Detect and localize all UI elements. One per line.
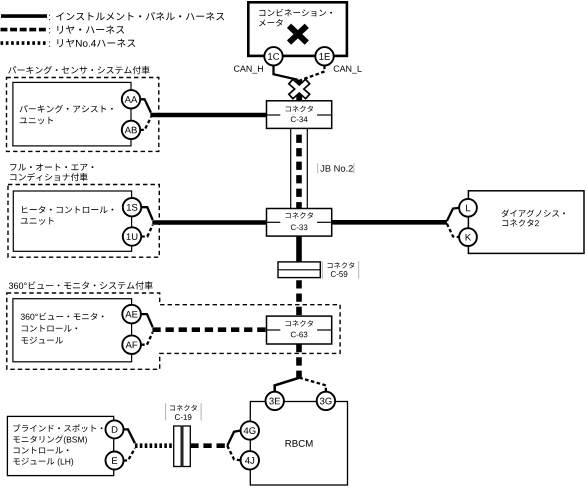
twisted-pair crossing symbol bbox=[290, 81, 308, 97]
pin 1U bbox=[123, 227, 141, 245]
wire parking merge to C-34 bbox=[150, 113, 266, 118]
pin 1E bbox=[315, 47, 333, 65]
pin AE bbox=[122, 305, 141, 324]
wire AF to merge (dashed) bbox=[141, 332, 153, 345]
heater control unit label line1 bbox=[22, 206, 113, 214]
connector C-63 box bbox=[267, 316, 332, 344]
C-59 left bracket bbox=[321, 261, 323, 279]
360 view monitor control module box bbox=[13, 299, 132, 362]
pin D bbox=[106, 420, 124, 438]
connector C-19 label bbox=[170, 405, 197, 411]
wire junction to C-34 (trunk) bbox=[296, 80, 302, 101]
wire C-19 to RBCM split (rear harness) bbox=[190, 443, 227, 448]
360 module label line2 bbox=[22, 325, 77, 332]
combination meter label line2 bbox=[259, 19, 283, 26]
wire split to 3E bbox=[275, 378, 300, 392]
connector C-33 label bbox=[286, 212, 313, 218]
wire C-63 down (rear harness) bbox=[296, 344, 302, 378]
C-19 left bracket bbox=[165, 403, 167, 420]
region label: 360 view monitor system bbox=[9, 281, 153, 289]
noise suppressor X in meter bbox=[289, 26, 307, 43]
wire 1S to merge bbox=[141, 207, 153, 220]
BSM label line4 bbox=[13, 458, 73, 467]
wire BSM merge to C-19 (rear No.4 harness) bbox=[135, 443, 174, 448]
pin 4G bbox=[241, 421, 259, 439]
net label CAN_H bbox=[234, 65, 263, 73]
wire to pin L bbox=[447, 208, 459, 221]
legend label: instrument panel harness bbox=[48, 15, 51, 20]
connector C-59 label bbox=[328, 262, 355, 268]
region label: full auto air conditioner line1 bbox=[10, 164, 93, 171]
legend line: rear harness bbox=[1, 28, 47, 32]
pin E bbox=[106, 452, 124, 470]
parking assist unit label line2 bbox=[20, 117, 53, 125]
pin L bbox=[459, 199, 477, 217]
wire E to merge (dashed) bbox=[124, 448, 135, 460]
pin K bbox=[459, 228, 477, 246]
legend label: rear harness bbox=[48, 28, 51, 33]
connector C-19 name bbox=[175, 414, 192, 420]
connector C-33 name bbox=[291, 224, 308, 230]
wire C-34 to C-33 (rear harness trunk) bbox=[296, 135, 302, 209]
combination meter box bbox=[248, 2, 347, 56]
pin AA bbox=[122, 90, 140, 108]
wire AE to merge bbox=[141, 314, 153, 327]
connector C-33 box bbox=[267, 209, 332, 237]
C-19 right bracket bbox=[200, 403, 202, 420]
360 module label line1 bbox=[21, 313, 104, 320]
RBCM box bbox=[250, 402, 347, 486]
BSM control module box bbox=[7, 416, 113, 475]
wire D to merge bbox=[124, 429, 135, 443]
legend line: rear No.4 harness bbox=[1, 41, 47, 45]
360 module label line3 bbox=[21, 337, 63, 344]
wire split to 3G (dashed) bbox=[299, 378, 326, 392]
connector C-34 name bbox=[291, 116, 308, 122]
connector C-34 box bbox=[267, 101, 332, 129]
wire 1C to junction (CAN_H) bbox=[274, 66, 298, 80]
wire heater merge to C-33 bbox=[152, 220, 266, 225]
wire split to 4G bbox=[227, 431, 240, 446]
BSM label line2 bbox=[13, 435, 87, 444]
connector C-59 name bbox=[331, 271, 348, 277]
pin AF bbox=[122, 335, 141, 354]
region label: parking sensor system bbox=[8, 66, 149, 74]
diagnosis connector 2 label line2 bbox=[502, 219, 539, 226]
junction block JB No.2 left rail bbox=[290, 128, 292, 208]
diagnosis connector 2 label line1 bbox=[502, 209, 565, 217]
JB No.2 right bracket bbox=[353, 163, 355, 173]
BSM label line3 bbox=[14, 447, 69, 454]
wire split to 4J (dashed) bbox=[227, 446, 240, 461]
legend line: instrument panel harness bbox=[1, 14, 47, 18]
combination meter label line1 bbox=[259, 9, 332, 17]
connector C-59 symbol bbox=[278, 262, 320, 278]
BSM label line1 bbox=[13, 424, 102, 432]
wire C-59 to C-63 (rear harness) bbox=[296, 280, 302, 316]
connector C-63 name bbox=[291, 332, 308, 338]
wire to pin K (dashed) bbox=[447, 224, 459, 238]
wire AB to merge (dashed) bbox=[140, 117, 151, 129]
wire AA to merge bbox=[140, 99, 151, 112]
legend text: instrument panel harness bbox=[56, 12, 224, 21]
C-59 right bracket bbox=[358, 261, 360, 279]
region label: full auto air conditioner line2 bbox=[10, 173, 87, 181]
region box: full auto air conditioner bbox=[8, 185, 159, 258]
heater control unit label line2 bbox=[21, 217, 54, 224]
JB No.2 left bracket bbox=[317, 163, 319, 173]
junction block JB No.2 right rail bbox=[306, 128, 308, 208]
wire 1E to junction (CAN_L, dashed) bbox=[301, 66, 325, 81]
legend label: rear No.4 harness bbox=[48, 41, 51, 46]
RBCM label bbox=[286, 440, 313, 447]
wire C-33 to diagnosis connector bbox=[332, 220, 447, 225]
wire C-33 to C-59 bbox=[296, 236, 302, 262]
pin 1C bbox=[264, 47, 282, 65]
net label CAN_L bbox=[334, 65, 362, 73]
connector C-63 label bbox=[286, 320, 313, 326]
legend text: rear No.4 harness bbox=[57, 39, 135, 47]
parking assist unit box bbox=[13, 82, 131, 145]
region box: 360 view monitor system bbox=[7, 293, 340, 369]
wire 1U to merge (dashed) bbox=[141, 225, 153, 237]
parking assist unit label line1 bbox=[20, 105, 113, 113]
pin 3G bbox=[317, 392, 335, 410]
pin 1S bbox=[123, 198, 141, 216]
legend text: rear harness bbox=[57, 25, 124, 33]
connector C-19 symbol bbox=[174, 426, 191, 467]
pin 3E bbox=[266, 392, 284, 410]
heater control unit box bbox=[13, 191, 131, 251]
pin AB bbox=[122, 121, 140, 139]
pin 4J bbox=[241, 451, 259, 469]
region box: parking sensor system bbox=[7, 78, 159, 152]
JB No.2 label bbox=[320, 165, 352, 172]
wire 360 merge to C-63 (rear harness) bbox=[152, 327, 266, 332]
connector C-34 label bbox=[286, 106, 313, 112]
diagnosis connector 2 box bbox=[468, 191, 584, 254]
